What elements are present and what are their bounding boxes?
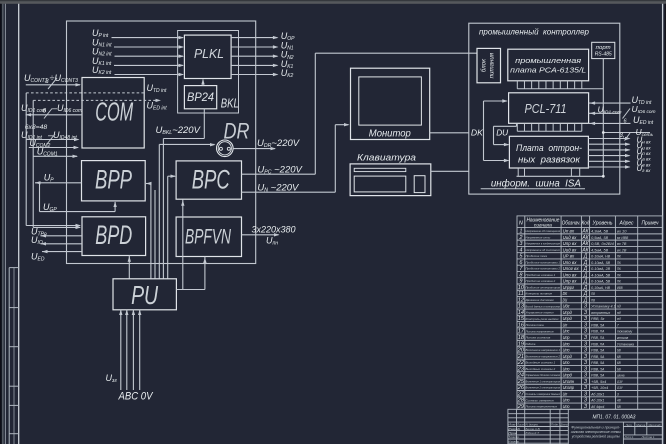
svg-text:З: З: [584, 348, 587, 354]
svg-text:Включение напряжения 2: Включение напряжения 2: [526, 354, 561, 358]
wire PLKL output U K1: [231, 64, 277, 66]
svg-text:Логика сигналов: Логика сигналов: [524, 336, 550, 340]
svg-text:РВВ, 5х: РВВ, 5х: [591, 317, 605, 321]
wire stub to DR socket: [159, 143, 214, 145]
svg-text:PCL-711: PCL-711: [525, 101, 567, 116]
svg-text:З: З: [584, 341, 587, 347]
svg-text:токовому: токовому: [617, 330, 632, 334]
svg-text:BPFVN: BPFVN: [185, 225, 232, 248]
svg-text:Клавиатура: Клавиатура: [357, 152, 416, 163]
svg-text:плата PCA-6135/L: плата PCA-6135/L: [510, 66, 586, 75]
bus slash 6 out: [623, 109, 631, 119]
svg-text:4В: 4В: [617, 399, 621, 403]
svg-text:Uпрд: Uпрд: [563, 316, 573, 321]
wire stub into BPC left: [168, 175, 175, 177]
slash 3 net: [625, 133, 631, 141]
block COM: [82, 78, 144, 149]
keyboard top bar: [354, 168, 406, 171]
svg-text:З: З: [584, 304, 587, 310]
svg-text:Плата оптрон-: Плата оптрон-: [516, 143, 582, 154]
svg-text:Uпо вх: Uпо вх: [563, 272, 578, 277]
svg-text:ОЗУ: ОЗУ: [617, 380, 623, 384]
port RS-485 box: [592, 42, 615, 58]
wire vertical from dashed ED: [32, 100, 34, 227]
wire bundle v3 to PU: [158, 144, 160, 278]
svg-text:Uид вх: Uид вх: [563, 247, 578, 252]
svg-text:Uпапн: Uпапн: [563, 379, 575, 384]
svg-text:UDR~220V: UDR~220V: [257, 138, 301, 149]
svg-text:0-10мА, 5В: 0-10мА, 5В: [591, 280, 611, 284]
svg-text:питания: питания: [489, 52, 496, 78]
ISA label underline: [481, 188, 585, 190]
wire U DR 220V: [233, 148, 275, 150]
svg-text:Выходные сигналы 1: Выходные сигналы 1: [526, 361, 556, 365]
svg-text:7: 7: [617, 323, 619, 327]
bus slash 48: [47, 134, 55, 144]
svg-text:Включение напряжения 1: Включение напряжения 1: [526, 348, 561, 352]
svg-text:RS-485: RS-485: [595, 52, 612, 58]
svg-text:З: З: [584, 310, 587, 316]
wire opto out 1: [588, 138, 629, 140]
svg-text:Примеч: Примеч: [642, 221, 659, 227]
svg-text:0,5В, 0х2В/4: 0,5В, 0х2В/4: [591, 242, 614, 246]
svg-text:Аб 2Вх1: Аб 2Вх1: [590, 392, 604, 396]
svg-text:Д: Д: [583, 279, 588, 285]
svg-text:Функциональная и принцип-: Функциональная и принцип-: [571, 426, 621, 430]
svg-text:Аб 2Вх1: Аб 2Вх1: [590, 399, 604, 403]
svg-text:24: 24: [517, 373, 524, 379]
wire U IO out of BPD: [41, 242, 47, 245]
optocoupler board ticks to ISA: [517, 168, 519, 176]
svg-text:19: 19: [518, 341, 524, 347]
svg-text:Напряжение об помещения: Напряжение об помещения: [526, 229, 561, 233]
wire U N1 int to PLKL: [114, 46, 183, 48]
svg-text:ИВВ: ИВВ: [617, 286, 623, 290]
svg-text:Д: Д: [583, 254, 588, 260]
wire BPD to PU: [128, 256, 130, 279]
svg-text:15: 15: [518, 316, 525, 322]
svg-text:18: 18: [518, 335, 525, 341]
svg-text:Юдин К.Т.: Юдин К.Т.: [526, 431, 541, 435]
svg-text:РВВ, 5А: РВВ, 5А: [591, 323, 605, 327]
svg-text:DU: DU: [563, 297, 568, 302]
svg-text:Uпо: Uпо: [563, 341, 570, 346]
svg-text:Д: Д: [583, 260, 588, 266]
block BPD: [82, 217, 146, 256]
frame line left inner margin: [18, 4, 20, 444]
svg-text:Д: Д: [583, 291, 588, 297]
svg-text:порт: порт: [596, 45, 611, 51]
outer enclosure box: [67, 21, 256, 264]
svg-text:Uпр: Uпр: [563, 335, 570, 340]
svg-text:ABC 0V: ABC 0V: [118, 391, 154, 403]
wire 3x220x380 output: [242, 234, 279, 236]
svg-text:РВВ, ПА: РВВ, ПА: [591, 336, 605, 340]
wire opto out 2: [588, 143, 629, 145]
wire TD into BPD left: [26, 225, 80, 227]
svg-text:блок: блок: [481, 58, 488, 72]
svg-text:ПВ: ПВ: [591, 292, 595, 296]
svg-text:Д: Д: [583, 297, 588, 303]
svg-text:BPC: BPC: [192, 164, 230, 194]
svg-text:+5В, 10х4: +5В, 10х4: [591, 386, 608, 390]
wire bundle v1 to PU: [150, 184, 152, 279]
svg-text:23: 23: [517, 366, 525, 372]
wire vertical U P loop: [39, 183, 41, 212]
svg-text:З: З: [584, 379, 587, 385]
svg-text:Листов 1: Листов 1: [641, 435, 655, 439]
svg-text:BP24: BP24: [187, 90, 214, 104]
svg-text:МП1. 07. 01. 000А3: МП1. 07. 01. 000А3: [593, 415, 637, 421]
svg-text:0-10мА, 2В: 0-10мА, 2В: [591, 267, 611, 271]
svg-text:шина: шина: [617, 374, 625, 378]
monitor screen: [359, 77, 422, 125]
svg-text:Напряжение в конденсаторе: Напряжение в конденсаторе: [526, 242, 561, 246]
svg-text:Сигналы измерения данных: Сигналы измерения данных: [526, 392, 561, 396]
svg-text:5В: 5В: [617, 405, 621, 409]
svg-text:Uп вх: Uп вх: [563, 228, 575, 233]
PCA board connector comb: [517, 88, 603, 90]
wire PLKL output U K2: [231, 74, 277, 76]
svg-text:З: З: [584, 366, 587, 372]
wire vertical from dashed TD: [25, 93, 27, 226]
svg-text:РВВ, 5А: РВВ, 5А: [591, 361, 605, 365]
wire U IDint into COM: [26, 139, 78, 141]
wire U TD int out: [589, 102, 631, 104]
bus slash 3: [48, 78, 57, 89]
junction dot ISA: [602, 175, 605, 178]
wire opto out 4: [588, 155, 629, 157]
keyboard box: [350, 164, 431, 196]
svg-text:ных развязок: ных развязок: [518, 155, 581, 166]
wire ED into BPD left: [33, 226, 80, 228]
svg-text:Д: Д: [583, 266, 588, 272]
svg-text:информ. шина ISA: информ. шина ISA: [491, 178, 581, 190]
svg-text:АК: АК: [581, 247, 589, 253]
svg-text:Работа: Работа: [526, 342, 536, 346]
wire into PU right: [177, 289, 205, 291]
svg-text:UР вх: UР вх: [563, 254, 575, 259]
wire U COM1: [33, 155, 77, 157]
svg-text:вх 2В: вх 2В: [617, 248, 627, 252]
svg-text:DR: DR: [224, 119, 250, 144]
svg-text:0,5мА, 5В: 0,5мА, 5В: [591, 236, 609, 240]
wire PLKL output U N1: [231, 46, 277, 48]
wires PU to phases: [120, 310, 122, 390]
svg-text:промышленный контроллер: промышленный контроллер: [479, 27, 589, 37]
PCA board box: [508, 49, 589, 81]
svg-text:0-10мА, НВ: 0-10мА, НВ: [591, 255, 611, 259]
frame left bottom ladder cells: [8, 268, 10, 444]
svg-text:Uпрд: Uпрд: [563, 310, 573, 315]
svg-text:16: 16: [518, 322, 525, 328]
svg-text:Uпог вх: Uпог вх: [563, 266, 580, 271]
wire bundle v5 to PU: [167, 176, 169, 278]
keyboard side key: [414, 176, 425, 193]
wire keyboard to controller: [431, 170, 469, 172]
svg-text:3: 3: [617, 392, 619, 396]
svg-text:Uдг: Uдг: [563, 304, 571, 309]
svg-text:28: 28: [517, 398, 525, 404]
svg-text:Uпр вх: Uпр вх: [563, 241, 578, 246]
svg-text:З: З: [584, 329, 587, 335]
svg-text:4,5мА, 5В: 4,5мА, 5В: [591, 248, 609, 252]
wire BP24 to PLKL: [202, 80, 204, 86]
block BKL enclosure: [178, 31, 239, 114]
sheet right dark edge: [665, 4, 666, 444]
wire opto out 6: [588, 166, 629, 168]
svg-text:Обознач.: Обознач.: [562, 221, 581, 227]
svg-text:устройства релейной защиты: устройства релейной защиты: [571, 434, 620, 438]
wire stub into BPP right: [146, 182, 152, 185]
frame line left second: [4, 4, 6, 444]
svg-text:9: 9: [519, 279, 522, 285]
block PCL-711: [509, 93, 589, 124]
wire U P out of BPP: [35, 181, 41, 184]
svg-text:10: 10: [518, 285, 525, 291]
svg-text:Логика тока: Логика тока: [524, 323, 543, 327]
svg-text:3x220x380: 3x220x380: [252, 224, 297, 235]
block BPC: [176, 161, 241, 199]
wire opto out 5: [588, 160, 629, 162]
svg-text:Уровень: Уровень: [593, 221, 613, 227]
svg-text:пд: пд: [617, 305, 621, 309]
svg-text:0,10мА, НВ: 0,10мА, НВ: [591, 286, 611, 290]
svg-text:Uпо: Uпо: [563, 404, 570, 409]
wire stub to BP24 drop: [163, 138, 204, 140]
wire BPC bottom drop: [182, 199, 184, 289]
svg-text:11: 11: [518, 291, 524, 297]
svg-text:Подп.: Подп.: [551, 423, 559, 427]
svg-text:4: 4: [519, 247, 522, 253]
svg-text:6В: 6В: [617, 355, 621, 359]
svg-text:Uпс: Uпс: [563, 329, 571, 334]
block BP24: [184, 86, 216, 109]
svg-text:промышленная: промышленная: [515, 56, 581, 65]
svg-text:COM: COM: [95, 97, 133, 127]
svg-text:DK: DK: [563, 291, 568, 296]
svg-text:6В: 6В: [617, 361, 621, 365]
svg-text:PLKL: PLKL: [194, 46, 224, 61]
svg-text:Uпо: Uпо: [563, 366, 570, 371]
svg-text:Масса: Масса: [636, 423, 645, 427]
svg-text:4-10мА, 5В: 4-10мА, 5В: [591, 273, 611, 277]
svg-text:Установку 4.1: Установку 4.1: [591, 305, 616, 309]
svg-text:0-10мА, 5В: 0-10мА, 5В: [591, 261, 611, 265]
svg-text:Включение 1 интеграторов: Включение 1 интеграторов: [526, 379, 561, 383]
wire BPFVN bottom drop: [204, 257, 206, 290]
signal table grid: [517, 216, 662, 409]
svg-text:Пробитие клапана 2: Пробитие клапана 2: [526, 279, 556, 283]
wire U N 220V to monitor: [242, 191, 336, 193]
svg-text:Uпо: Uпо: [563, 398, 570, 403]
svg-text:Монитор: Монитор: [369, 129, 411, 140]
svg-text:Пробитие тока: Пробитие тока: [526, 254, 548, 258]
svg-text:Пробитие интеграторов: Пробитие интеграторов: [526, 285, 561, 289]
svg-text:20: 20: [517, 348, 525, 354]
wire PLKL output U N2: [231, 55, 277, 57]
svg-text:иальная электрические схемы: иальная электрические схемы: [571, 430, 621, 434]
svg-text:Пробитие контактами 2: Пробитие контактами 2: [526, 267, 561, 271]
svg-text:Пробитие контактами 1: Пробитие контактами 1: [526, 260, 561, 264]
svg-text:АК: АК: [581, 228, 589, 234]
wire U net 3ph: [603, 132, 650, 134]
svg-text:Выходные сигналы 2: Выходные сигналы 2: [526, 367, 556, 371]
svg-text:DK: DK: [471, 128, 483, 138]
svg-text:З: З: [584, 373, 587, 379]
wire U K1 int to PLKL: [114, 64, 183, 66]
svg-text:Uпр вх: Uпр вх: [563, 279, 578, 284]
svg-text:встроенных: встроенных: [591, 311, 610, 315]
svg-text:вх ИВВ: вх ИВВ: [617, 236, 629, 240]
svg-text:гтоков: гтоков: [617, 336, 629, 340]
svg-text:Включение 2 интеграторов: Включение 2 интеграторов: [526, 386, 561, 390]
bus slash 6: [44, 109, 52, 119]
svg-text:6В: 6В: [617, 349, 621, 353]
svg-text:Код: Код: [582, 221, 590, 227]
svg-text:13: 13: [518, 304, 525, 310]
svg-text:Напряжение сети: Напряжение сети: [526, 235, 551, 239]
wire DU net: [493, 126, 495, 144]
svg-text:Выход данных в контроллер: Выход данных в контроллер: [526, 304, 561, 308]
svg-text:25: 25: [517, 379, 525, 385]
svg-text:вх 7В: вх 7В: [617, 242, 627, 246]
svg-text:27: 27: [517, 391, 525, 397]
svg-text:Uпо вх: Uпо вх: [563, 260, 578, 265]
ISA bus wire: [517, 175, 604, 177]
svg-text:Движение дисплеем: Движение дисплеем: [525, 298, 554, 302]
svg-text:РВВ, 5А: РВВ, 5А: [591, 367, 605, 371]
svg-text:Адрес: Адрес: [619, 221, 634, 227]
svg-text:BKL: BKL: [221, 97, 239, 111]
svg-text:Сигналы измерения: Сигналы измерения: [526, 398, 554, 402]
svg-text:BPP: BPP: [95, 164, 132, 194]
svg-text:Аб 4фх4: Аб 4фх4: [590, 405, 604, 409]
wire U IDcom out: [589, 112, 620, 114]
svg-text:14: 14: [518, 310, 524, 316]
svg-text:21: 21: [517, 354, 524, 360]
svg-text:Пробитие клапана 1: Пробитие клапана 1: [526, 273, 556, 277]
svg-text:АК: АК: [581, 241, 589, 247]
svg-text:N: N: [519, 221, 523, 227]
power block box: [477, 48, 501, 82]
svg-text:Логика переключения: Логика переключения: [524, 405, 557, 409]
svg-text:4,3мА, 5В: 4,3мА, 5В: [591, 229, 609, 233]
svg-text:6В: 6В: [617, 367, 621, 371]
wire U P int to PLKL: [112, 37, 184, 39]
svg-text:6: 6: [43, 108, 47, 115]
wire bundle v4 to PU: [162, 139, 164, 279]
svg-text:АК: АК: [581, 235, 589, 241]
svg-text:РВВ, 5А: РВВ, 5А: [591, 349, 605, 353]
PCL connector comb: [517, 130, 582, 132]
svg-text:Лист 1: Лист 1: [624, 435, 634, 439]
wire U GP to BPP bottom: [40, 211, 116, 213]
svg-text:UN ~220V: UN ~220V: [257, 183, 300, 194]
svg-text:З: З: [584, 316, 587, 322]
sheet left dark edge: [0, 4, 2, 444]
svg-text:+5В, 5х4: +5В, 5х4: [591, 380, 606, 384]
svg-text:З: З: [584, 385, 587, 391]
wire U TPo out of BPD: [41, 234, 47, 237]
dashed wire U TD int through COM: [26, 92, 144, 94]
svg-text:пд: пд: [617, 311, 621, 315]
svg-text:РВВ, ПА: РВВ, ПА: [591, 330, 605, 334]
wire PLKL output U ОР: [231, 37, 277, 39]
svg-text:22: 22: [517, 360, 525, 366]
wire BP24 drop: [203, 109, 205, 139]
connector DR socket: [217, 140, 234, 157]
svg-text:З: З: [584, 335, 587, 341]
dashed wire U ED int through COM: [33, 99, 156, 101]
wire U K2 int to PLKL: [115, 74, 184, 76]
wire U PC 220V to controller: [242, 173, 316, 175]
monitor box: [351, 68, 430, 139]
svg-text:РВВ, 5А: РВВ, 5А: [591, 374, 605, 378]
svg-text:З: З: [584, 360, 587, 366]
block BPP: [82, 161, 146, 201]
wire U IDcom out of COM: [26, 113, 32, 116]
wire monitor to controller DK: [430, 132, 469, 134]
svg-text:Uпо: Uпо: [563, 348, 570, 353]
wire U N2 int to PLKL: [115, 55, 184, 57]
wire U ED out of BPD: [42, 250, 48, 253]
svg-text:Лит.: Лит.: [625, 423, 633, 427]
svg-text:Напряжение об теплового: Напряжение об теплового: [526, 248, 561, 252]
svg-text:Uпо: Uпо: [563, 360, 570, 365]
wire U ED int out: [589, 122, 631, 124]
svg-text:Контроль реле выдачи: Контроль реле выдачи: [526, 317, 559, 321]
svg-text:З: З: [584, 354, 587, 360]
wire DK net: [483, 101, 485, 161]
block BPFVN: [176, 217, 241, 257]
svg-text:вх 10: вх 10: [617, 229, 627, 233]
svg-text:Uид вх: Uид вх: [563, 235, 578, 240]
frame line left outer: [2, 4, 4, 444]
svg-text:РВВ, ПА: РВВ, ПА: [591, 342, 605, 346]
keyboard key area: [354, 176, 406, 192]
block PLKL: [184, 35, 231, 78]
wire U CONT into COM: [26, 84, 80, 86]
svg-text:сигнала: сигнала: [534, 223, 552, 228]
window top strip: [0, 0, 666, 1]
wire port to ISA bus: [602, 59, 604, 177]
wire bundle v2 to PU: [154, 190, 156, 279]
arrow into BPD bottom: [128, 256, 131, 262]
svg-text:Uпрд: Uпрд: [563, 373, 573, 378]
svg-text:З: З: [584, 398, 587, 404]
svg-text:26: 26: [517, 385, 525, 391]
svg-text:3: 3: [45, 78, 49, 85]
svg-text:Контроль питания: Контроль питания: [526, 292, 553, 296]
svg-text:12: 12: [518, 297, 525, 303]
title block grid: [508, 409, 662, 444]
svg-text:17: 17: [518, 329, 525, 335]
svg-text:DU: DU: [496, 128, 509, 138]
svg-text:тд: тд: [617, 317, 621, 321]
svg-text:6x8=48: 6x8=48: [25, 124, 48, 131]
svg-text:Uп: Uп: [563, 391, 568, 396]
svg-text:Управление блоком питания: Управление блоком питания: [526, 373, 561, 377]
svg-text:Логика напряжения: Логика напряжения: [524, 329, 553, 333]
svg-text:BPD: BPD: [95, 220, 132, 250]
svg-text:Установка: Установка: [617, 342, 634, 346]
block optocoupler board: [509, 136, 588, 168]
svg-text:Управление перекл: Управление перекл: [526, 311, 554, 315]
block PU: [113, 279, 176, 310]
svg-text:Uпрд: Uпрд: [563, 354, 573, 359]
svg-text:PU: PU: [131, 280, 158, 310]
